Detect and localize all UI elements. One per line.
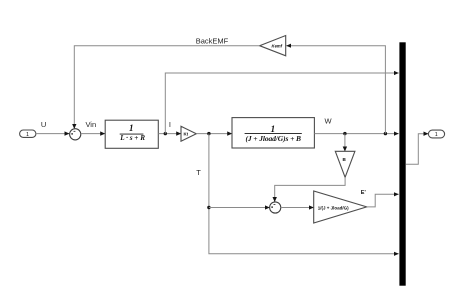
- svg-text:T: T: [196, 168, 201, 177]
- svg-text:1/(J + Jload/G): 1/(J + Jload/G): [318, 205, 349, 210]
- svg-text:L · s + R: L · s + R: [119, 134, 145, 142]
- svg-text:(J + Jload/G)s + B: (J + Jload/G)s + B: [245, 134, 301, 143]
- wire: T down and to Mux input 4: [209, 134, 399, 254]
- wire: input port to Sum1: [36, 133, 69, 135]
- wire: Sum1 to block 1/(L.s+R): [81, 133, 105, 135]
- sum junction Sum2: [270, 202, 281, 213]
- svg-text:W: W: [324, 116, 332, 125]
- wire: gain B output to Sum2 top: [275, 177, 345, 202]
- wire: T branch to Sum2: [209, 207, 270, 209]
- wire: gain Kt to block 1/((J+Jload/G)s+B): [196, 133, 232, 135]
- transfer function block 1/((J+Jload/G)s+B): [232, 118, 314, 148]
- svg-text:Kemf: Kemf: [272, 44, 283, 49]
- gain Kemf (points left): [260, 36, 286, 56]
- input port 1 (U): [20, 130, 36, 138]
- wire: block W output to Mux input 2: [314, 133, 398, 135]
- svg-text:Kt: Kt: [183, 132, 188, 137]
- gain B (points down): [335, 151, 355, 177]
- sum junction Sum1: [70, 129, 81, 140]
- svg-text:I: I: [169, 120, 171, 129]
- junction dot: I tap: [164, 132, 167, 135]
- junction dot: T branch to Sum2: [207, 206, 210, 209]
- svg-text:1: 1: [129, 123, 134, 133]
- wire: Mux output to output port: [406, 134, 429, 165]
- svg-text:U: U: [41, 120, 46, 129]
- svg-text:Vin: Vin: [85, 120, 96, 129]
- svg-text:1: 1: [26, 132, 29, 138]
- svg-text:1: 1: [435, 132, 438, 138]
- svg-text:BackEMF: BackEMF: [196, 36, 229, 45]
- wire: I feedback to Mux input 1: [165, 73, 398, 134]
- gain 1/(J + Jload/G) (points right): [314, 191, 367, 223]
- gain Kt: [181, 126, 196, 141]
- wire: W down into gain B: [344, 134, 346, 152]
- output port 1: [428, 130, 444, 138]
- wire: Sum2 to gain 1/(J + Jload/G): [281, 207, 314, 209]
- transfer function block 1/(L·s+R): [105, 120, 158, 148]
- wire: gain 1/(J + Jload/G) output to Mux input 3: [367, 194, 399, 207]
- wire: gain Kemf output to Sum1 top: [74, 46, 259, 129]
- junction dot: BackEMF tap: [384, 132, 387, 135]
- junction dot: T tap: [207, 132, 210, 135]
- mux block (black bar): [399, 42, 405, 285]
- junction dot: B tap: [343, 132, 346, 135]
- svg-text:E': E': [361, 190, 367, 196]
- wire: W feedback up to gain Kemf: [286, 46, 385, 134]
- wire: block 1/(L·s+R) to gain Kt: [158, 133, 181, 135]
